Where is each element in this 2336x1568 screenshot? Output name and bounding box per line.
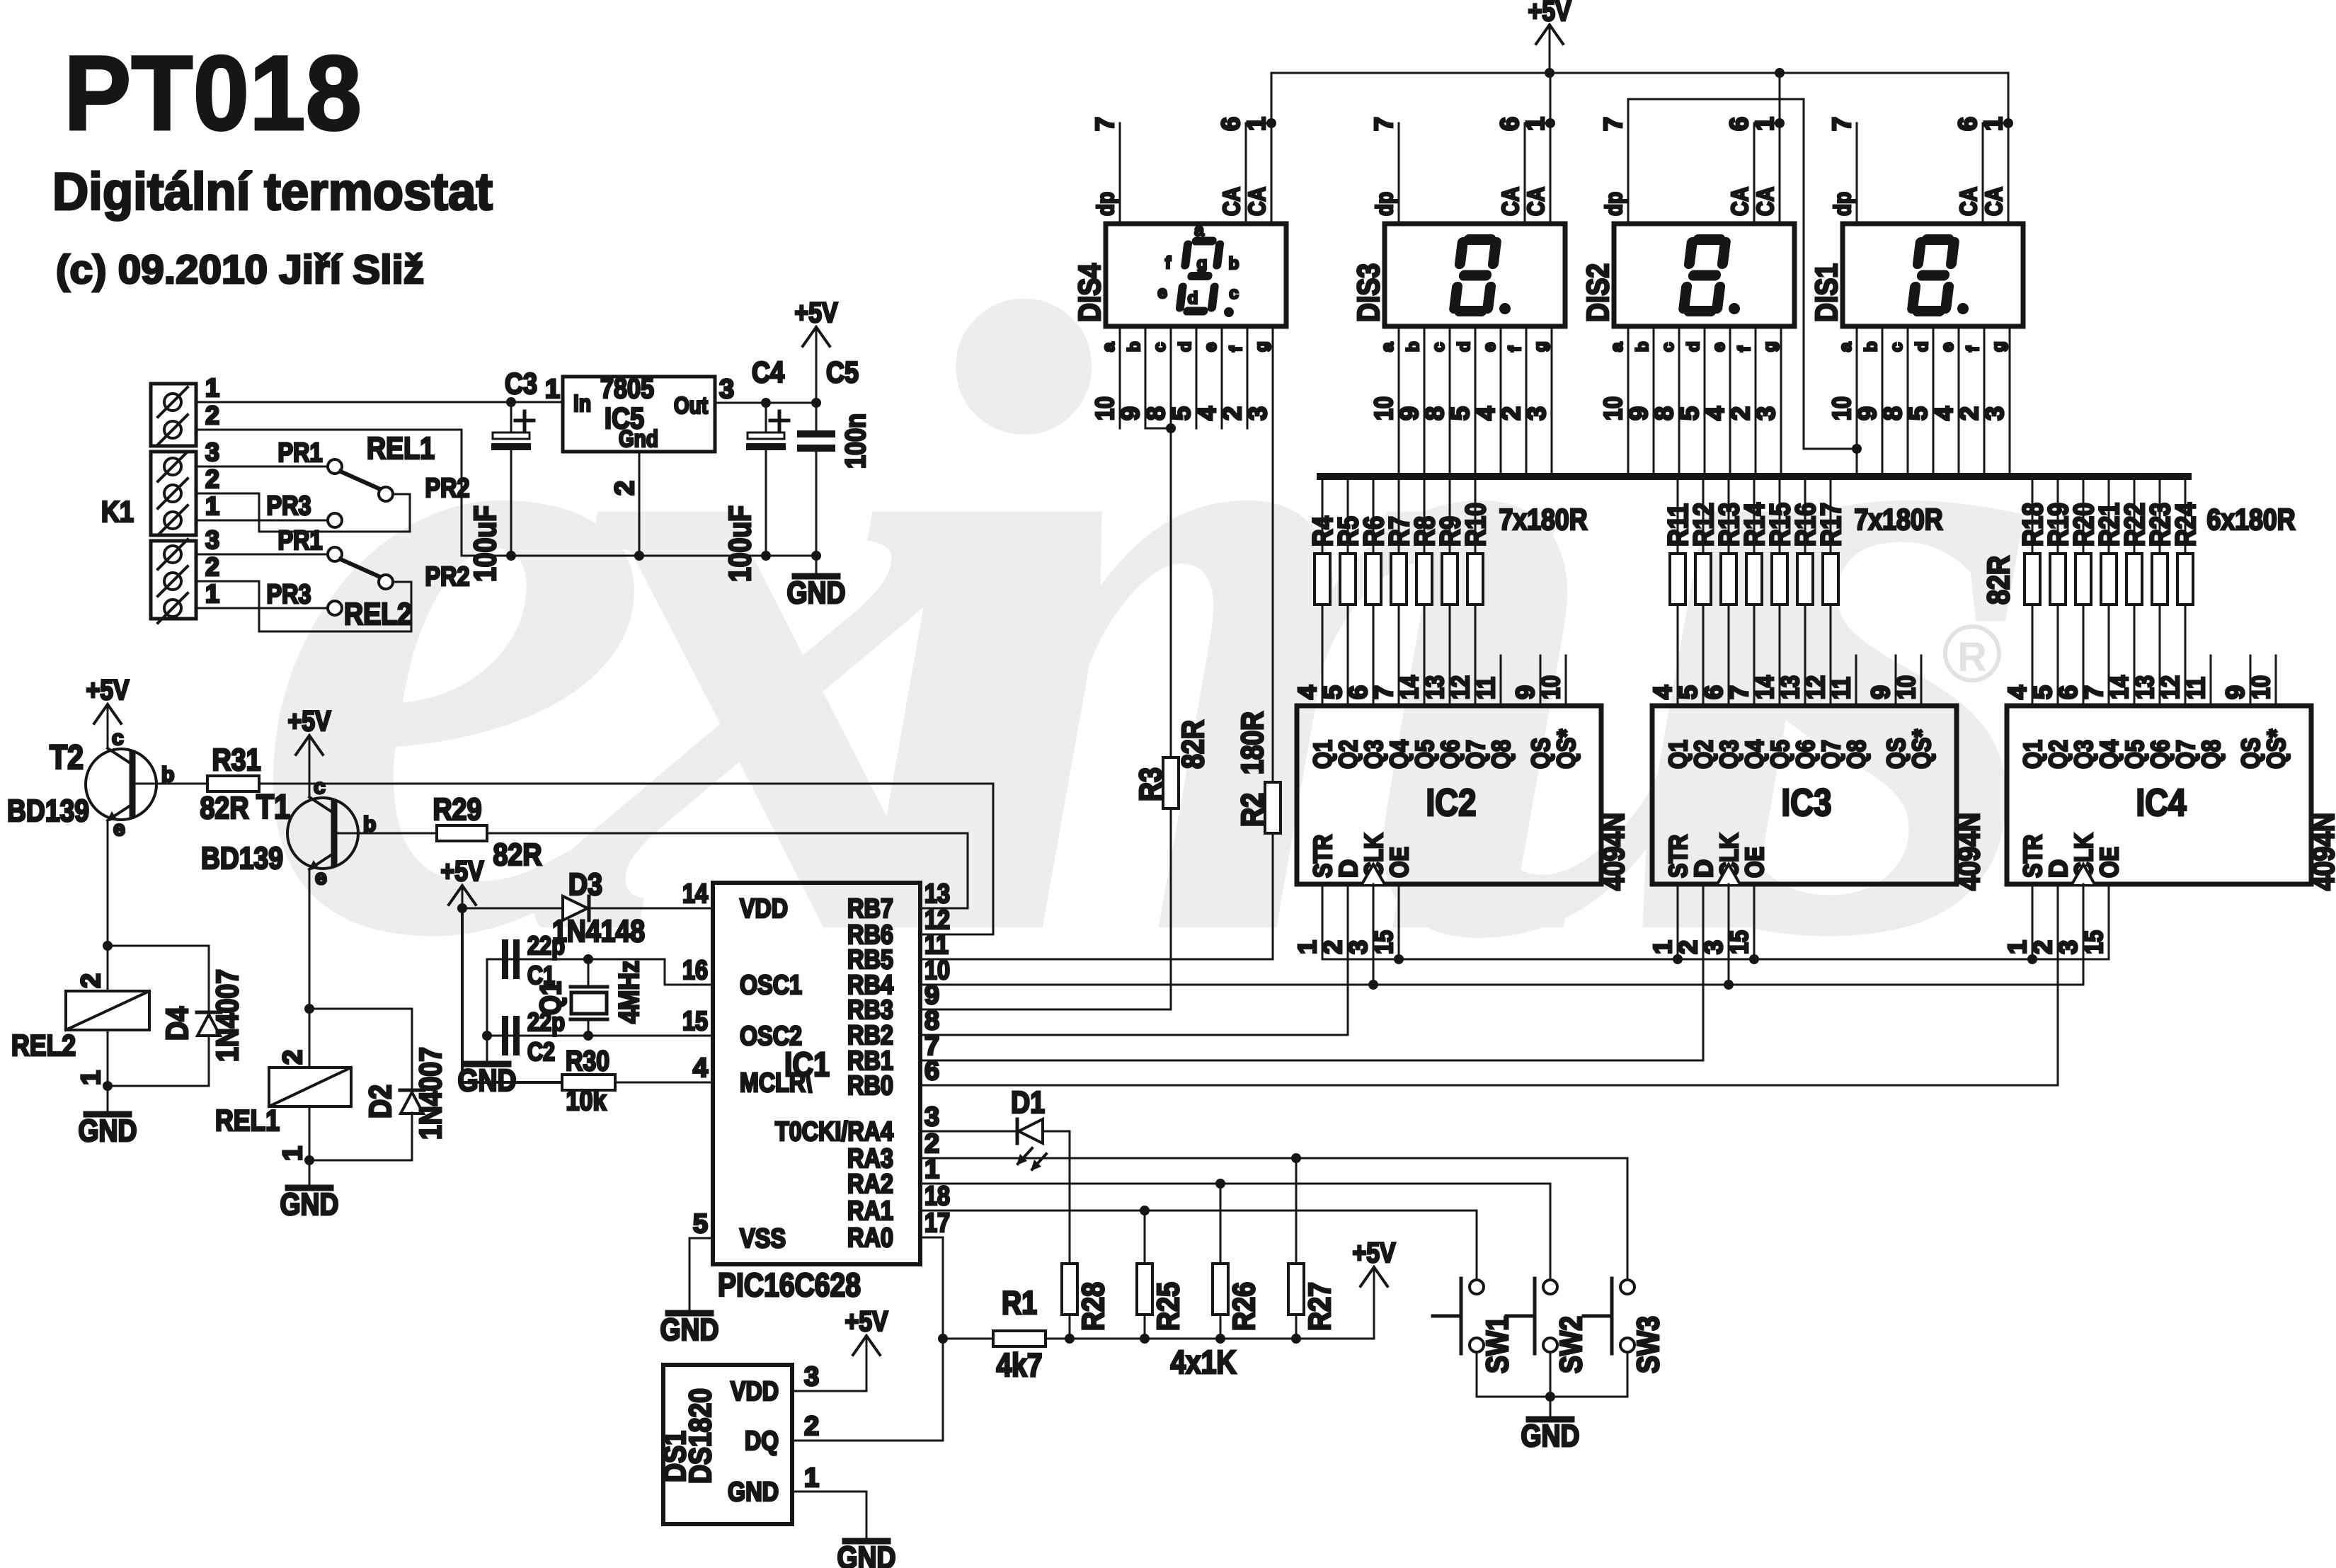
DIS2 segment c wire to bus <box>1678 326 1681 476</box>
svg-text:f: f <box>1227 345 1246 352</box>
svg-text:9: 9 <box>1511 685 1540 699</box>
svg-text:CA: CA <box>1727 187 1753 216</box>
resistor R7 <box>1391 554 1407 605</box>
svg-text:OE: OE <box>1385 847 1414 878</box>
wire bus to R14 <box>1753 476 1756 554</box>
DIS3 segment c wire to bus <box>1449 326 1451 476</box>
DIS4 decimal point <box>1224 307 1234 317</box>
svg-text:2: 2 <box>278 1050 308 1065</box>
svg-text:REL1: REL1 <box>215 1104 280 1137</box>
switch arm REL2 <box>340 559 380 577</box>
capacitor C1 22p <box>502 939 520 979</box>
svg-text:D: D <box>1689 859 1718 878</box>
DIS4 segment e stub <box>1221 326 1223 428</box>
resistor R13 <box>1721 554 1736 605</box>
svg-text:6: 6 <box>1216 117 1245 131</box>
svg-text:f: f <box>1735 345 1754 352</box>
wire junction to ground (REL1) <box>309 1160 311 1188</box>
resistor R12 <box>1695 554 1711 605</box>
switch SW1 top contact <box>1470 1280 1484 1294</box>
resistor R2 <box>1265 782 1281 833</box>
DIS3 segment g wire to bus <box>1551 326 1553 476</box>
svg-text:R25: R25 <box>1151 1282 1186 1331</box>
junction IC3 STR <box>1673 954 1683 964</box>
svg-text:OSC1: OSC1 <box>740 971 802 1000</box>
junction DIS4 CA pins <box>1266 118 1276 128</box>
svg-text:MCLR\: MCLR\ <box>740 1068 812 1098</box>
wire bus to R8 <box>1424 476 1426 554</box>
wire bus to R23 <box>2159 476 2161 554</box>
svg-text:c: c <box>112 726 124 750</box>
svg-text:D1: D1 <box>1011 1085 1045 1120</box>
svg-text:d: d <box>1913 341 1932 352</box>
svg-text:Q6: Q6 <box>1436 740 1465 769</box>
svg-text:DIS3: DIS3 <box>1351 263 1386 322</box>
svg-text:7: 7 <box>1090 117 1119 131</box>
DIS1 segment f wire to bus <box>1983 326 1986 476</box>
svg-text:Q3: Q3 <box>2069 740 2098 769</box>
wire T2 emitter down <box>107 821 109 991</box>
junction C3 bottom <box>506 551 516 561</box>
svg-text:c: c <box>314 775 326 799</box>
svg-text:QS*: QS* <box>2262 729 2291 769</box>
DIS4 segment g wire to R2 <box>1272 326 1274 782</box>
wire R10 to IC pin <box>1475 605 1477 706</box>
DIS3 CA join <box>1525 122 1550 125</box>
svg-text:PR3: PR3 <box>267 580 311 610</box>
svg-text:d: d <box>1684 341 1703 352</box>
wire RA4 to D1 <box>920 1131 1017 1133</box>
svg-text:g: g <box>1760 341 1780 352</box>
wire D3 anode <box>462 908 563 910</box>
wire bus to R17 <box>1830 476 1832 554</box>
switch SW3 top contact <box>1620 1280 1634 1294</box>
svg-text:Q4: Q4 <box>1740 740 1769 769</box>
svg-text:3: 3 <box>1980 406 2009 420</box>
display DIS2 box <box>1614 224 1794 326</box>
junction IC3 CLK <box>1724 980 1734 990</box>
wire R27 top <box>1295 1158 1298 1264</box>
svg-text:6: 6 <box>1699 685 1728 699</box>
svg-text:PR1: PR1 <box>278 526 323 556</box>
switch common ground row <box>1477 1396 1627 1398</box>
svg-text:5: 5 <box>1445 406 1475 420</box>
svg-text:10: 10 <box>1369 396 1398 420</box>
svg-text:6: 6 <box>1344 685 1373 699</box>
svg-text:22p: 22p <box>527 931 565 960</box>
wire bus to R10 <box>1475 476 1477 554</box>
svg-text:GND: GND <box>1521 1419 1580 1453</box>
wire R12 to IC pin <box>1702 605 1705 706</box>
junction rail at DIS2 CA <box>1775 68 1785 78</box>
resistor R4 <box>1315 554 1330 605</box>
contact PR3 REL2 <box>328 601 342 615</box>
wire to D2 top <box>309 1009 412 1090</box>
svg-text:16: 16 <box>682 956 708 985</box>
svg-text:R3: R3 <box>1133 767 1168 801</box>
wire R2 column <box>1272 833 1274 959</box>
svg-text:10: 10 <box>1536 675 1565 699</box>
junction +5V D3 node <box>457 903 467 913</box>
switch SW1 bottom contact <box>1470 1338 1484 1352</box>
pull-up common row <box>1046 1338 1374 1340</box>
svg-text:13: 13 <box>2130 675 2159 699</box>
DIS1 segment g wire to bus <box>2009 326 2011 476</box>
wire R21 to IC pin <box>2108 605 2110 706</box>
svg-text:c: c <box>1229 284 1238 303</box>
svg-text:1: 1 <box>205 579 219 608</box>
wire to osc ground <box>486 1036 488 1064</box>
resistor R11 <box>1670 554 1685 605</box>
wire DS1 DQ <box>792 1440 943 1442</box>
switch SW1 actuator <box>1433 1278 1461 1354</box>
DIS2 decimal point <box>1729 303 1740 314</box>
svg-text:f: f <box>1964 345 1983 352</box>
junction IC4 STR <box>2027 954 2037 964</box>
switch SW3 bottom contact <box>1620 1338 1634 1352</box>
svg-text:STR: STR <box>1308 835 1337 878</box>
junction C5 bottom <box>811 551 821 561</box>
wire R25 bottom <box>1144 1315 1146 1339</box>
resistor R21 <box>2101 554 2117 605</box>
DIS1 segment a wire to bus <box>1856 326 1858 476</box>
wire K1 pin1 to 7805 In <box>196 401 563 404</box>
svg-text:3: 3 <box>1522 406 1551 420</box>
DIS1 CA pin 1 to rail <box>2008 73 2010 224</box>
svg-text:82R: 82R <box>200 791 249 825</box>
svg-text:1: 1 <box>545 374 560 404</box>
transistor T1 BD139 <box>287 797 358 871</box>
svg-text:5: 5 <box>1675 406 1704 420</box>
svg-text:2: 2 <box>1954 406 1983 420</box>
wire bus to R4 <box>1322 476 1324 554</box>
wire RA3 row <box>920 1158 1627 1280</box>
transistor T2 BD139 <box>86 748 156 822</box>
diode D2 1N4007 <box>400 1090 424 1114</box>
junction RA2 R26 <box>1215 1179 1225 1189</box>
DIS3 segment e wire to bus <box>1500 326 1502 476</box>
svg-text:R10: R10 <box>1460 503 1492 546</box>
wire R25 top <box>1144 1211 1146 1264</box>
wire REL2 bottom <box>107 1030 109 1086</box>
DIS2 segment f wire to bus <box>1755 326 1757 476</box>
resistor R29 <box>437 825 487 841</box>
DIS4 segment c wire to R3 <box>1170 326 1172 757</box>
wire RB3 to R3 <box>920 808 1171 1009</box>
wire IC5 Out to +5V <box>715 402 816 404</box>
wire R26 bottom <box>1220 1315 1222 1339</box>
wire bus to R19 <box>2057 476 2059 554</box>
watermark eximus <box>252 120 2052 1123</box>
svg-text:e: e <box>315 866 327 889</box>
junction C4 bottom <box>761 551 771 561</box>
svg-text:b: b <box>1229 254 1239 273</box>
svg-text:QS*: QS* <box>1907 729 1936 769</box>
svg-text:e: e <box>1201 343 1220 352</box>
svg-text:14: 14 <box>2105 675 2134 699</box>
wire K1-1 to PR3 (REL2) <box>196 607 328 610</box>
svg-text:R29: R29 <box>433 792 482 827</box>
wire bus to R15 <box>1779 476 1781 554</box>
svg-text:6x180R: 6x180R <box>2207 503 2296 536</box>
junction R28 bottom <box>1065 1334 1075 1344</box>
svg-text:C3: C3 <box>505 367 537 400</box>
svg-text:7x180R: 7x180R <box>1499 503 1588 536</box>
wire T1 emitter down <box>309 870 311 1068</box>
svg-text:10: 10 <box>2246 675 2275 699</box>
resistor R30 <box>562 1075 615 1090</box>
svg-text:1N4007: 1N4007 <box>413 1047 448 1140</box>
svg-text:Q1: Q1 <box>2018 740 2047 769</box>
wire +5V node down to R30 row <box>462 908 562 1082</box>
wire R6 to IC pin <box>1373 605 1375 706</box>
svg-text:R27: R27 <box>1302 1282 1337 1331</box>
svg-text:1N4148: 1N4148 <box>552 914 645 949</box>
wire D1 to R28 <box>1045 1131 1070 1264</box>
junction REL1 bottom <box>304 1155 314 1165</box>
+5V at pull-ups <box>1353 1237 1396 1339</box>
switch SW2 actuator <box>1506 1278 1535 1354</box>
IC3 OE pin 15 wire <box>1753 884 1756 959</box>
svg-text:VDD: VDD <box>740 894 788 924</box>
resistor R20 <box>2076 554 2091 605</box>
svg-text:a: a <box>1836 342 1855 352</box>
svg-text:+5V: +5V <box>1353 1237 1396 1269</box>
svg-text:12: 12 <box>1445 675 1475 699</box>
svg-text:1: 1 <box>1293 940 1322 954</box>
capacitor C5 100n <box>797 403 835 556</box>
svg-text:+5V: +5V <box>441 856 484 887</box>
svg-text:+5V: +5V <box>288 706 331 737</box>
IC3 QS* pin 10 stub <box>1920 656 1923 706</box>
svg-text:10: 10 <box>1598 396 1627 420</box>
wire R13 to IC pin <box>1728 605 1730 706</box>
svg-text:SW3: SW3 <box>1631 1316 1666 1373</box>
svg-text:DS1820: DS1820 <box>683 1388 718 1484</box>
junction IC5 gnd bottom <box>634 551 644 561</box>
wire R7 to IC pin <box>1398 605 1400 706</box>
svg-text:82R: 82R <box>1981 556 2016 605</box>
IC3 QS pin 9 stub <box>1895 656 1897 706</box>
ground (REL1) <box>280 1187 339 1222</box>
IC4 QS* pin 10 stub <box>2275 656 2277 706</box>
svg-text:3: 3 <box>804 1362 819 1392</box>
watermark registered mark <box>1945 626 1999 680</box>
svg-text:g: g <box>1197 254 1208 273</box>
svg-text:a: a <box>1194 221 1204 240</box>
shift register IC4 4094N box <box>2007 706 2311 884</box>
svg-text:9: 9 <box>1624 406 1653 420</box>
ground rail <box>462 555 816 557</box>
wire R1 left <box>943 1338 993 1340</box>
wire bus to R5 <box>1347 476 1349 554</box>
svg-text:9: 9 <box>1853 406 1882 420</box>
svg-text:6: 6 <box>1724 117 1753 131</box>
wire bus to R6 <box>1373 476 1375 554</box>
svg-text:1: 1 <box>76 1070 106 1085</box>
svg-text:82R: 82R <box>493 837 542 872</box>
wire VSS to ground <box>689 1238 713 1313</box>
svg-text:8: 8 <box>1878 406 1907 420</box>
resistor R25 <box>1137 1264 1152 1315</box>
svg-text:4MHz: 4MHz <box>614 961 645 1024</box>
svg-text:1: 1 <box>804 1463 819 1493</box>
DIS2 segment b wire to bus <box>1653 326 1655 476</box>
svg-text:OE: OE <box>1740 847 1769 878</box>
svg-text:Q3: Q3 <box>1359 740 1388 769</box>
svg-text:14: 14 <box>682 879 708 909</box>
junction IC3 OE <box>1749 954 1759 964</box>
svg-text:DIS2: DIS2 <box>1581 263 1615 322</box>
svg-text:13: 13 <box>1420 675 1449 699</box>
wire REL1 bottom <box>309 1106 311 1160</box>
junction switch ground <box>1545 1392 1555 1402</box>
svg-text:VDD: VDD <box>731 1377 779 1407</box>
node C3 top junction <box>506 397 516 407</box>
svg-text:R17: R17 <box>1816 503 1847 546</box>
wire RA1 row <box>920 1211 1477 1280</box>
wire T2 collector to +5V <box>107 723 109 748</box>
svg-text:Digitální termostat: Digitální termostat <box>52 162 493 221</box>
IC3 STR pin 1 wire <box>1677 884 1679 959</box>
DIS3 decimal point <box>1499 303 1511 314</box>
wire bus to R21 <box>2108 476 2110 554</box>
wire K1-3 to PR1 contact (REL2) <box>196 554 328 556</box>
svg-text:GND: GND <box>660 1312 719 1347</box>
DIS3 segment b wire to bus <box>1424 326 1426 476</box>
svg-text:5: 5 <box>1673 685 1702 699</box>
wire K1-1 to PR3 (REL1) <box>196 520 328 522</box>
IC4 Q8 pin 11 stub <box>2210 656 2212 706</box>
svg-text:QS: QS <box>1882 738 1911 769</box>
svg-text:c: c <box>1887 343 1906 352</box>
svg-text:(c) 09.2010 Jiří Sliž: (c) 09.2010 Jiří Sliž <box>56 247 424 292</box>
svg-text:CA: CA <box>1981 187 2007 216</box>
svg-text:QS: QS <box>2236 738 2265 769</box>
svg-text:7: 7 <box>1598 117 1627 131</box>
IC3 clock triangle <box>1717 864 1740 884</box>
wire bus to R9 <box>1449 476 1451 554</box>
svg-text:+5V: +5V <box>795 297 838 328</box>
wire T2 base to R31 <box>135 783 207 785</box>
resistor R9 <box>1442 554 1458 605</box>
data row RB2 to IC2 D <box>920 884 1348 1035</box>
svg-text:b: b <box>1125 341 1144 352</box>
svg-text:3: 3 <box>205 525 219 554</box>
wire R28 bottom <box>1069 1315 1071 1339</box>
resistor R17 <box>1823 554 1838 605</box>
svg-text:g: g <box>1989 341 2008 352</box>
svg-text:Q1: Q1 <box>1664 740 1693 769</box>
DIS2 segment g wire to bus <box>1780 326 1782 476</box>
DIS4 segment a stub <box>1119 326 1121 428</box>
svg-text:CA: CA <box>1752 187 1778 216</box>
wire to D4 top <box>108 946 209 1012</box>
wire K1-3 to PR1 contact <box>196 466 328 468</box>
DIS2 CA join <box>1754 122 1780 125</box>
svg-text:REL2: REL2 <box>344 597 412 631</box>
resistor R24 <box>2177 554 2193 605</box>
junction RA3 R27 <box>1291 1153 1301 1163</box>
microcontroller IC1 box <box>713 883 920 1264</box>
svg-text:2: 2 <box>76 973 106 988</box>
junction DIS1 CA pins <box>2003 118 2013 128</box>
wire R29 to RB7 hook <box>487 833 968 908</box>
segment bus <box>1320 473 2188 480</box>
svg-text:D: D <box>2044 859 2073 878</box>
DIS1 segment e wire to bus <box>1958 326 1960 476</box>
svg-text:7: 7 <box>1369 117 1398 131</box>
DIS1 decimal point <box>1957 303 1969 314</box>
resistor R3 <box>1163 757 1179 808</box>
svg-text:IC3: IC3 <box>1782 782 1832 824</box>
DIS4 segment f stub <box>1247 326 1249 428</box>
svg-text:SW2: SW2 <box>1554 1316 1588 1373</box>
junction R27 bottom <box>1291 1334 1301 1344</box>
+5V rail for displays <box>1528 0 1571 73</box>
capacitor C2 22p <box>502 1016 520 1055</box>
resistor R6 <box>1365 554 1381 605</box>
svg-text:GND: GND <box>280 1187 339 1222</box>
wire bus to R18 <box>2032 476 2034 554</box>
junction REL2 bottom <box>103 1081 113 1091</box>
svg-text:f: f <box>1506 345 1525 352</box>
junction IC2 CLK <box>1368 980 1378 990</box>
resistor R18 <box>2025 554 2040 605</box>
relay coil REL1 <box>269 1068 351 1106</box>
wire bus to R11 <box>1677 476 1679 554</box>
DIS4 digit 8 outline <box>1176 238 1223 314</box>
junction RA1 R25 <box>1140 1206 1150 1215</box>
svg-text:CA: CA <box>1955 187 1981 216</box>
DIS2 CA pin 1 to rail <box>1779 73 1781 224</box>
svg-text:1N4007: 1N4007 <box>210 969 245 1062</box>
svg-text:e: e <box>1157 283 1167 302</box>
svg-text:DIS1: DIS1 <box>1809 263 1844 322</box>
wire PR2 to K1-2 (REL2) <box>196 581 411 631</box>
svg-text:Q6: Q6 <box>2146 740 2175 769</box>
svg-text:IC4: IC4 <box>2136 782 2187 824</box>
capacitor C4 100uF <box>746 403 789 556</box>
wire SW1 bottom <box>1476 1352 1478 1397</box>
IC2 QS* pin 10 stub <box>1565 656 1567 706</box>
DIS2 digit 8 <box>1678 234 1731 316</box>
svg-text:BD139: BD139 <box>201 841 283 876</box>
junction DIS3 CA pins <box>1545 118 1555 128</box>
wire R17 to IC pin <box>1830 605 1832 706</box>
svg-text:c: c <box>1150 343 1169 352</box>
svg-text:PT018: PT018 <box>64 33 362 152</box>
svg-text:6: 6 <box>1495 117 1524 131</box>
svg-text:T0CKI/RA4: T0CKI/RA4 <box>775 1117 893 1147</box>
svg-text:180R: 180R <box>1235 711 1270 774</box>
wire R19 to IC pin <box>2057 605 2059 706</box>
svg-text:D2: D2 <box>363 1085 398 1118</box>
resistor R31 <box>207 776 259 791</box>
svg-text:D3: D3 <box>568 867 602 902</box>
svg-text:g: g <box>1531 341 1550 352</box>
svg-text:14: 14 <box>1395 675 1424 699</box>
svg-text:4094N: 4094N <box>1596 813 1631 891</box>
wire bus to R7 <box>1398 476 1400 554</box>
svg-text:Q7: Q7 <box>1816 740 1845 769</box>
strobe row <box>1322 884 2109 959</box>
svg-text:10: 10 <box>1827 396 1856 420</box>
svg-text:e: e <box>1480 343 1499 352</box>
svg-text:T2: T2 <box>50 739 84 777</box>
svg-text:18: 18 <box>924 1181 950 1211</box>
svg-text:OE: OE <box>2095 847 2124 878</box>
